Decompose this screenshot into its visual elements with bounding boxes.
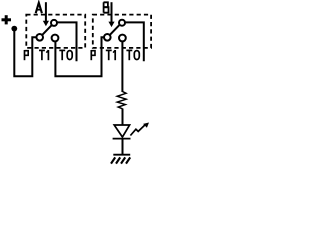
resistor bbox=[117, 92, 126, 109]
switch B upper contact (to T0) bbox=[119, 20, 125, 26]
switch B lever bbox=[110, 25, 119, 35]
LED triangle (anode) bbox=[114, 125, 129, 137]
wire: LED cathode to ground bbox=[122, 139, 124, 155]
LED light-emission arrow bbox=[130, 125, 145, 136]
ground hatch strokes bbox=[111, 157, 130, 163]
label P (switch B) bbox=[91, 50, 95, 60]
pushbutton A dashed enclosure bbox=[26, 15, 85, 48]
label T1 (switch A) bbox=[39, 50, 48, 60]
actuator arrow B bbox=[111, 2, 113, 22]
LED cathode bar bbox=[113, 138, 131, 140]
wire: switch B T1 down to resistor bbox=[121, 41, 123, 92]
label T0 (switch B) bbox=[126, 50, 139, 60]
switch B pole contact P bbox=[104, 34, 111, 41]
switch A upper contact (to T0) bbox=[51, 20, 57, 26]
+ supply terminal bbox=[2, 15, 12, 24]
wire: + rail to P terminal of switch A bbox=[14, 29, 36, 76]
label P (switch A) bbox=[25, 50, 29, 60]
pushbutton B dashed enclosure bbox=[93, 15, 151, 48]
wire: switch B upper contact to T0 stub bbox=[125, 22, 144, 61]
wire: switch A upper contact to T0 stub bbox=[57, 22, 77, 61]
switch A pole contact P bbox=[36, 34, 43, 41]
switch A lever bbox=[42, 25, 51, 35]
switch A contact T1 bbox=[52, 35, 59, 42]
switch B contact T1 bbox=[119, 35, 126, 42]
label A bbox=[36, 3, 42, 13]
ground bar bbox=[113, 154, 130, 156]
supply node dot bbox=[11, 26, 17, 32]
label B bbox=[104, 2, 109, 12]
label T1 (switch B) bbox=[106, 50, 115, 60]
wire: resistor to LED bbox=[122, 109, 124, 126]
label T0 (switch A) bbox=[59, 50, 72, 60]
actuator arrow A bbox=[45, 2, 47, 21]
wire: switch A T1 to P of switch B bbox=[55, 37, 103, 76]
